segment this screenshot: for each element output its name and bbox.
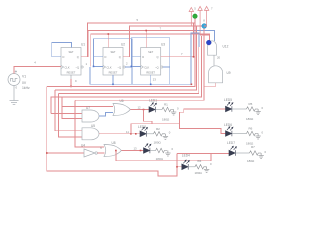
wire LED2 to R2 [146,133,153,135]
svg-text:Q: Q [156,55,158,59]
wire red U3 top pin drop [145,31,147,48]
LED2 [140,127,148,137]
wire red inverter input tap y155 [47,152,84,154]
wire LED3 to R3 [150,150,156,152]
probe cyan X2 [202,24,207,29]
junction dot blue CLK2 [93,66,95,68]
wire red SET rail y30.5 [88,31,193,57]
svg-text:CLK: CLK [144,65,149,69]
AND gate U5 [82,128,99,140]
wire red LED4 feed [177,166,182,168]
junction dot red row1 [143,109,145,111]
wire blue vertical x191 [191,33,199,84]
svg-text:LED2: LED2 [138,125,146,129]
LED5 [226,102,234,112]
wire red vertical x195 to y86.4 [47,23,195,86]
wire red branch to LED6 [180,124,226,134]
svg-text:180Ω: 180Ω [247,159,255,163]
OR gate U8 [104,145,121,157]
wire red U9 output left [204,83,216,87]
wire LED5 to R5 [232,108,247,110]
wire blue ~Q3 drop to rail [169,67,171,84]
wire red y97 [51,36,202,114]
wire blue feedback loop U1 (~Q to D) [52,43,72,57]
svg-text:~Q: ~Q [117,65,121,69]
vertical AND gate U9 [209,66,223,83]
svg-text:SET: SET [148,50,153,54]
svg-text:LED4: LED4 [182,154,190,158]
svg-text:1kHz: 1kHz [22,86,30,90]
svg-text:U4: U4 [81,144,85,148]
svg-text:RESET: RESET [67,71,76,75]
wire gray U12 out to U9 in [213,55,215,66]
svg-text:180Ω: 180Ω [246,117,254,121]
svg-text:Q: Q [77,55,79,59]
svg-text:D: D [63,55,65,59]
junction dot red inverter tap [46,152,48,154]
resistor R1 [162,107,174,111]
wire blue rail segment to U12 [194,31,215,42]
junction dot red at blue rail end [191,84,193,86]
svg-text:SET: SET [110,50,115,54]
wire red U7 input 1 [51,113,82,115]
junction dot blue U3 reset [150,84,152,86]
resistor R4 [195,165,207,169]
flip-flop U2 [103,48,125,76]
svg-text:D: D [142,55,144,59]
svg-text:180Ω: 180Ω [154,140,162,144]
wire red inverter out to U8 in2 [97,152,104,154]
wire gray RESET pin stub U1 [70,75,72,79]
wire blue U7 out to U6 in [99,113,113,117]
wire red green-probe stub [194,19,196,24]
resistor R7 [250,151,262,155]
probe triangle T2 [198,6,202,35]
svg-text:11: 11 [126,130,129,134]
svg-text:V1: V1 [22,75,26,79]
probe triangle T3 [204,6,208,25]
wire red T2 to gate U12 input [200,35,209,41]
junction dot blue CLK3 [131,66,133,68]
wire blue RESET stub U3 [150,75,152,84]
svg-text:U3: U3 [161,42,165,46]
svg-text:SET: SET [68,50,73,54]
probe blue X3 [206,40,211,45]
junction dot red row2 riser [130,133,132,135]
ground row5 [255,109,260,115]
wire red LED7 feed [177,152,229,154]
junction dot red row3 [140,150,142,152]
svg-text:LED6: LED6 [224,123,232,127]
svg-text:U5: U5 [91,124,95,128]
junction dot red row2 [135,133,137,135]
wire red left bus x58.5 [59,93,83,137]
clock source V1 [8,70,20,98]
wire red Q2 riser and rail y26 [123,26,204,57]
wire LED6 to R6 [232,133,247,135]
svg-text:180Ω: 180Ω [195,171,203,175]
junction dot red U1 reset [70,86,72,88]
wire red row2 box riser [131,124,152,134]
wire red U2 top pin drop [107,34,109,48]
probe green X1 [193,14,198,19]
svg-text:U8: U8 [112,141,116,145]
wire red left bus x62 [62,97,82,119]
svg-text:U12: U12 [223,45,229,49]
wire red U5 out to LED2 [99,133,140,135]
wire LED4 to R4 [188,166,195,168]
wire blue ~Q2 drop to rail [131,67,133,84]
vertical AND gate U12 [208,41,217,55]
wire red vertical x196.5 to y90 [55,26,197,90]
svg-text:13: 13 [134,147,138,151]
ground row2 [163,134,168,140]
svg-text:180Ω: 180Ω [162,117,170,121]
junction dot red U3 top pin [145,30,147,32]
resistor R6 [247,131,259,135]
wire red U6 input 1 [62,106,113,108]
svg-text:R6: R6 [249,127,253,131]
wire red left bus x55 [55,90,82,131]
svg-text:~Q: ~Q [75,65,79,69]
LED3 [144,144,152,154]
wire blue CLK3 feed [131,65,140,67]
svg-text:U7: U7 [86,106,90,110]
svg-text:U6: U6 [120,99,124,103]
svg-text:20: 20 [217,56,221,60]
junction dot red LED4 riser [176,166,178,168]
wire red RESET drop U1 to net 9 rail [70,79,72,86]
wire red U8 branch to LED7 [116,151,211,161]
wire red Q1 riser and rail y23 [81,23,195,57]
ground (below V1) [10,99,19,105]
svg-text:R1: R1 [164,103,168,107]
svg-text:~Q: ~Q [155,65,159,69]
wire red U8 input 1 via x75 [75,100,104,147]
svg-text:RESET: RESET [146,71,155,75]
AND gate U7 [82,110,99,122]
svg-text:LED7: LED7 [227,141,235,145]
svg-text:Q: Q [119,55,121,59]
probe triangle T1 [189,8,193,27]
svg-text:R4: R4 [198,159,202,163]
wire red vertical x198.8 to y93.4 [59,47,199,93]
wire LED7 to R7 [235,152,249,154]
svg-text:LED1: LED1 [149,99,157,103]
svg-text:U9: U9 [227,71,231,75]
junction dot red U8 branch [115,150,117,152]
wire net 4 (V1 to U1 CLK) [14,67,61,74]
wire red left bus x45.5 to bottom rail [47,86,177,176]
resistor R2 [154,132,166,136]
wire red U6 out to LED1 [130,109,149,111]
OR gate U6 [113,104,130,116]
LED4 [182,160,190,170]
ground row7 [258,153,263,159]
LED6 [226,127,234,137]
wire blue CLK2 feed [94,65,104,67]
LED1 [149,103,157,113]
svg-text:23: 23 [153,78,157,82]
svg-text:R5: R5 [249,102,253,106]
inverter U4 [84,149,97,157]
wire red row1 branch staircase to LED5 [144,109,226,124]
wire red Q3 to right [161,56,194,58]
junction dot blue U2 reset [112,84,114,86]
wire blue feedback loop U2 (~Q to D) [94,39,132,67]
wire blue D tap U3 [131,56,140,58]
ground row4 [204,167,209,173]
svg-text:U2: U2 [121,42,125,46]
ground row1 [171,110,176,116]
wire blue feedback loop U3 (~Q to D) [131,38,169,67]
svg-text:LED5: LED5 [224,98,232,102]
flip-flop U1 [61,48,83,76]
resistor R5 [247,107,259,111]
wire red vertical x204 (cyan probe net) to y100.3 [75,28,204,100]
wire red SET rail y34 [91,34,210,66]
wire red vertical x193.5 rail17 tap [193,23,195,57]
LED7 [229,146,237,156]
svg-text:D: D [105,55,107,59]
svg-text:R7: R7 [251,145,255,149]
flip-flop U3 [141,48,163,76]
svg-text:CLK: CLK [107,65,112,69]
resistor R3 [156,148,168,152]
junction dot red U2 top pin [108,33,110,35]
junction dot red Q3 [193,56,195,58]
svg-text:U1: U1 [81,42,85,46]
ground row6 [255,134,260,140]
svg-text:0V: 0V [22,81,27,85]
wire blue RESET stub U2 [112,75,114,84]
wire LED1 to R1 [155,109,162,111]
wire red U8 out to LED3 [121,150,143,152]
wire blue ~Q1 drop to rail [90,67,191,84]
svg-text:RESET: RESET [109,71,118,75]
ground row3 [165,151,170,157]
svg-text:CLK: CLK [65,65,70,69]
wire blue D tap U2 [94,56,104,58]
svg-text:12: 12 [138,105,142,109]
svg-text:R2: R2 [156,127,160,131]
wire red cyan junction [204,25,207,26]
